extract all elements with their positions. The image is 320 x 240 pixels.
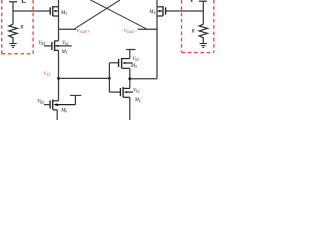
wire H1 source node to riser [59, 77, 110, 79]
M1 gate lead [44, 45, 52, 47]
resistor R left [9, 24, 17, 43]
wire VDD to node left [12, 2, 14, 25]
M4 drain-source vertical wire [156, 0, 158, 79]
wire vout+ horizontal [59, 28, 77, 30]
node dot riser [108, 77, 111, 80]
svg-text:M1: M1 [61, 50, 68, 55]
svg-text:Vb1: Vb1 [62, 41, 69, 46]
wire node left to M3 gate [13, 10, 50, 12]
right dashed box (load network) [182, 0, 214, 53]
M5 supply T-bar [126, 49, 135, 51]
M5 bulk arrow [122, 62, 125, 64]
cropped label fragment top-right [191, 0, 193, 2]
transistor M6 (NMOS bottom-left) [50, 100, 75, 110]
transistor M1 (NMOS mid-left) [52, 41, 59, 52]
node dot on M6 bulk [56, 104, 58, 106]
wire M2 gate lead [109, 91, 120, 93]
ground right [200, 44, 207, 48]
svg-text:VB1: VB1 [38, 41, 45, 46]
M3 bulk arrow [55, 10, 58, 12]
wire cross diagonal A [74, 0, 120, 29]
svg-text:vout+: vout+ [77, 27, 91, 35]
transistor M5 (NMOS center) [119, 58, 133, 68]
svg-text:vout−: vout− [124, 27, 138, 35]
M1 source wire down to M6 [58, 50, 60, 101]
cropped label fragment top-left [22, 0, 26, 3]
M5 drain wire to T-bar [129, 50, 131, 59]
wire M5 gate lead [109, 62, 118, 64]
wire VDD to node right [202, 1, 204, 24]
wire M2 source down (cropped) [129, 97, 131, 120]
node dot M5 source [128, 77, 131, 80]
M6 bulk riser to T-bar [74, 95, 76, 104]
M6 bulk supply T-bar [70, 94, 81, 96]
resistor R right [199, 24, 207, 43]
M6 source wire down (cropped) [56, 110, 58, 120]
wire M5 source to M2 drain [129, 68, 131, 88]
wire vout- horizontal [138, 28, 157, 30]
svg-text:M5: M5 [130, 64, 137, 69]
ground left [9, 44, 16, 48]
svg-text:M2: M2 [134, 98, 141, 103]
left dashed box (load network) [2, 0, 33, 54]
wire riser (gates of M5 and M2) [108, 63, 110, 92]
svg-text:M4: M4 [148, 10, 155, 15]
M6 gate lead [44, 104, 50, 106]
svg-text:Vb2: Vb2 [133, 89, 140, 94]
svg-text:VB2: VB2 [37, 100, 44, 105]
M1 bulk arrow [55, 45, 58, 47]
M4 bulk arrow [157, 10, 160, 12]
M6 bulk arrow [53, 104, 56, 106]
M3 drain-source vertical wire [58, 0, 60, 29]
M2 bulk arrow [124, 91, 127, 93]
svg-text:M3: M3 [60, 11, 67, 16]
node dot M1 source / H1 [57, 77, 60, 80]
transistor M4 (PMOS top-right) [157, 6, 166, 16]
supply T-bar right [199, 0, 207, 2]
M1 bulk lead [55, 45, 71, 47]
M1 drain wire up [58, 29, 60, 41]
wire cross diagonal B [91, 0, 148, 29]
wire node right to M4 gate [166, 10, 204, 12]
supply T-bar left [9, 1, 17, 3]
svg-text:Vb3: Vb3 [132, 57, 139, 62]
svg-text:M6: M6 [60, 109, 67, 114]
transistor M2 (NMOS center-bottom) [120, 87, 133, 97]
transistor M3 (PMOS top-left) [50, 6, 58, 16]
wire node to right vertical [130, 78, 157, 80]
